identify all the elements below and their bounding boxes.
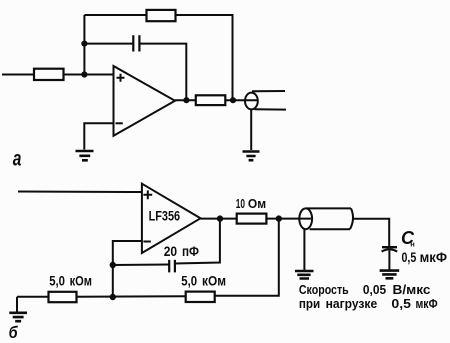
capacitor C1 plates: [133, 35, 139, 51]
svg-text:принагрузке0,5мкФ: принагрузке0,5мкФ: [299, 297, 438, 311]
coax cable body top line: [306, 207, 351, 209]
ground (op-amp a minus): [76, 151, 94, 160]
coax cable right end arc: [350, 208, 353, 229]
node feedback junction dot: [230, 97, 236, 103]
node cap tap dot (b): [110, 262, 116, 268]
wire minus input to ground: [84, 123, 113, 149]
wire cable shield bottom: [255, 108, 287, 110]
svg-text:LF356: LF356: [149, 208, 181, 224]
op-amp U1 (circuit a): [114, 66, 176, 136]
svg-text:5,0кОм: 5,0кОм: [181, 272, 226, 288]
coax cable left ellipse (b): [299, 208, 312, 229]
ground (left rail b): [9, 313, 27, 321]
wire cable shield to ground (b): [303, 229, 305, 271]
wire cable to load cap: [354, 219, 389, 246]
node resistor junction dot (b): [110, 294, 116, 300]
plus sign U2: [143, 190, 152, 199]
plus sign U1: [117, 74, 125, 82]
wire minus feedback loop: [113, 241, 142, 297]
minus sign U2: [143, 241, 150, 243]
wire R3 to cable: [225, 99, 258, 101]
wire left rail to ground: [16, 297, 18, 313]
svg-text:н: н: [410, 239, 415, 248]
wire cap feedback right: [139, 44, 186, 101]
resistor R4 10 Ohm: [237, 214, 267, 224]
wire cap feedback left (b): [113, 264, 169, 267]
resistor R1 (input, circuit a): [34, 69, 64, 80]
node after R4 dot: [276, 215, 282, 221]
svg-text:а: а: [13, 146, 22, 170]
ground (cable shield b): [295, 271, 314, 279]
minus sign U1: [116, 122, 123, 124]
coax cable end (circuit a): [245, 93, 258, 110]
wire op-amp output: [175, 99, 196, 101]
wire input (circuit b): [18, 191, 142, 194]
resistor R5 5.0k: [49, 292, 77, 302]
svg-text:б: б: [9, 324, 19, 342]
wire op-amp output (b): [201, 218, 237, 220]
node cap-tap junction dot: [81, 41, 87, 47]
wire input (circuit a): [2, 74, 34, 76]
wire top feedback right: [176, 15, 233, 100]
wire cap feedback right (b): [175, 219, 220, 264]
svg-text:Скорость0,05В/мкс: Скорость0,05В/мкс: [299, 283, 431, 297]
svg-text:5,0кОм: 5,0кОм: [49, 272, 92, 288]
resistor R2 (top feedback): [147, 10, 176, 21]
op-amp U2 LF356: [142, 184, 201, 253]
node output dot (b): [217, 215, 223, 221]
capacitor Cn load top plate: [382, 246, 397, 248]
wire cable shield top: [252, 90, 285, 92]
capacitor Cn load curved plate: [382, 249, 398, 251]
node A junction dot: [81, 71, 87, 77]
capacitor C2 20pF plates: [169, 260, 175, 273]
wire R4 to cable: [266, 218, 311, 220]
svg-text:10Ом: 10Ом: [236, 196, 266, 211]
wire top feedback left: [84, 14, 146, 16]
wire R1 to node A: [64, 74, 114, 76]
svg-text:20пФ: 20пФ: [164, 243, 199, 259]
resistor R6 5.0k: [186, 292, 215, 302]
wire vertical feedback riser: [83, 15, 85, 75]
node output junction dot: [183, 97, 189, 103]
wire feedback from output node down to R6: [215, 219, 279, 296]
wire cap feedback left: [84, 43, 133, 45]
svg-text:0,5мкФ: 0,5мкФ: [402, 250, 448, 265]
ground (Cn): [380, 271, 400, 279]
ground (cable shield a): [243, 152, 260, 161]
wire cable shield to ground: [250, 109, 252, 150]
resistor R3 (output): [196, 95, 226, 105]
coax cable body bottom line: [310, 228, 350, 230]
wire Cn to ground: [388, 251, 390, 270]
wire R5 to node: [77, 295, 186, 298]
wire 5k resistor rail left: [17, 296, 49, 298]
